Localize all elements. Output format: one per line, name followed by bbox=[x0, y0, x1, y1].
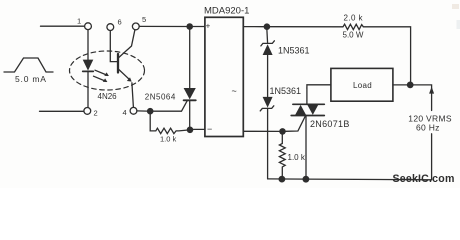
pin 5 terminal bbox=[132, 15, 146, 30]
node: zener top junction bbox=[264, 23, 271, 30]
svg-text:Load: Load bbox=[353, 81, 372, 90]
node: triac MT1 to rail bbox=[303, 176, 310, 183]
pin 6 terminal bbox=[107, 17, 122, 61]
zener D1 1N5361 bbox=[261, 30, 310, 97]
zener D2 1N5361 bbox=[260, 86, 301, 179]
bridge rectifier MDA920-1 bbox=[204, 5, 249, 136]
wire load to node C bbox=[393, 84, 407, 86]
node C bbox=[407, 82, 414, 89]
wire node C to AC corner bbox=[414, 85, 432, 111]
svg-text:+: + bbox=[206, 22, 211, 31]
resistor 2.0 k 5.0 W bbox=[343, 13, 364, 39]
phototransistor of 4N26 bbox=[118, 30, 135, 108]
load box bbox=[331, 68, 393, 101]
node G bbox=[279, 128, 286, 135]
wire node B to bridge - bbox=[193, 128, 205, 130]
wire gate diagonal into triac bbox=[286, 116, 305, 131]
label 4N26 bbox=[98, 92, 118, 101]
label 120 VRMS 60 Hz bbox=[408, 114, 452, 133]
svg-text:1.0 k: 1.0 k bbox=[288, 153, 306, 162]
resistor 1.0 k (gate) bbox=[279, 135, 305, 176]
pin 2 terminal bbox=[84, 108, 98, 118]
svg-text:MDA920-1: MDA920-1 bbox=[204, 5, 249, 16]
svg-text:2N5064: 2N5064 bbox=[145, 92, 176, 101]
input pulse waveform 5.0 mA bbox=[4, 58, 53, 84]
node B bbox=[187, 127, 194, 134]
AC source arrow bbox=[429, 87, 434, 94]
LED of optocoupler bbox=[83, 30, 94, 108]
svg-text:−: − bbox=[207, 124, 212, 134]
svg-text:6: 6 bbox=[118, 17, 122, 26]
light arrows bbox=[94, 70, 109, 82]
svg-text:1N5361: 1N5361 bbox=[278, 46, 310, 56]
wire bridge AC bottom to triac gate bbox=[243, 130, 279, 132]
svg-text:4: 4 bbox=[123, 108, 127, 117]
wire AC lower stub bbox=[431, 134, 433, 180]
svg-text:SeekIC.com: SeekIC.com bbox=[393, 173, 455, 185]
svg-text:5.0 mA: 5.0 mA bbox=[15, 74, 47, 84]
svg-text:1: 1 bbox=[77, 17, 81, 26]
svg-text:2: 2 bbox=[94, 109, 98, 118]
pin 1 terminal bbox=[77, 17, 91, 30]
svg-text:2.0 k: 2.0 k bbox=[344, 13, 364, 22]
wire pin5 to node bbox=[139, 25, 186, 27]
wire: SCR gate bbox=[154, 101, 188, 112]
triac Q2 2N6071B bbox=[291, 88, 349, 176]
SCR Q1 2N5064 bbox=[145, 30, 196, 127]
svg-text:~: ~ bbox=[232, 86, 237, 96]
wire node to bridge + bbox=[193, 26, 205, 28]
wire load to triac MT2 bbox=[307, 85, 331, 88]
node: pin5/SCR/bridge junction bbox=[186, 23, 193, 30]
pin 4 terminal bbox=[123, 107, 137, 116]
bottom rail wire bbox=[268, 178, 432, 181]
svg-text:5.0 W: 5.0 W bbox=[343, 31, 364, 40]
watermark SeekIC.com bbox=[393, 173, 455, 185]
svg-text:60 Hz: 60 Hz bbox=[416, 122, 440, 132]
wire bridge AC top to node bbox=[243, 26, 263, 28]
resistor 1.0 k (cathode) bbox=[150, 115, 187, 144]
node A bbox=[147, 108, 154, 115]
svg-text:5: 5 bbox=[142, 15, 146, 24]
svg-text:2N6071B: 2N6071B bbox=[310, 119, 350, 129]
wire pin4 to node A bbox=[137, 110, 147, 112]
svg-text:4N26: 4N26 bbox=[98, 92, 118, 101]
node: gate resistor to rail bbox=[279, 176, 286, 183]
scan smudge top-right bbox=[452, 4, 459, 9]
wire node to resistor 2.0k bbox=[270, 26, 343, 28]
wire 2.0k to top-right corner, down to load node bbox=[363, 27, 410, 82]
optocoupler U1 4N26 dashed ellipse bbox=[70, 51, 145, 90]
wire: top input to pin 1 bbox=[41, 25, 85, 27]
svg-text:1N5361: 1N5361 bbox=[270, 86, 302, 96]
wire: bottom input to pin 2 bbox=[40, 110, 84, 112]
svg-text:1.0 k: 1.0 k bbox=[160, 134, 177, 143]
